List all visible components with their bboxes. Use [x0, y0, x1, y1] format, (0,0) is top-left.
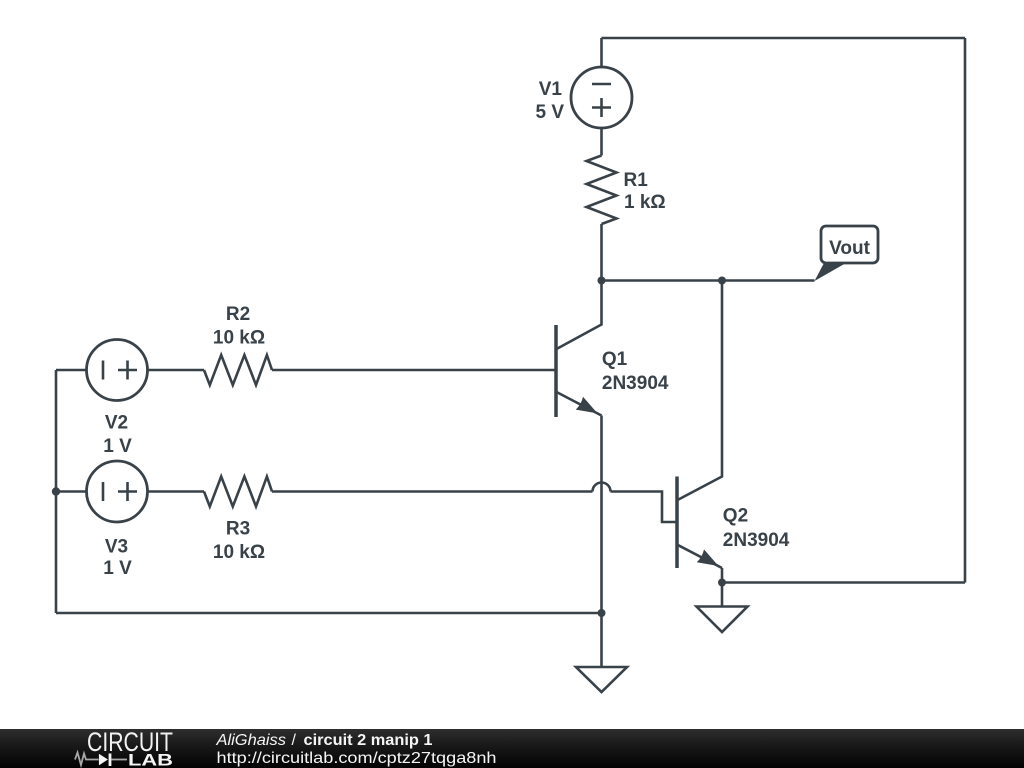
node junction dot bottom rail — [598, 609, 606, 617]
svg-text:/: / — [292, 732, 297, 749]
svg-text:2N3904: 2N3904 — [602, 373, 669, 394]
resistor R2 — [204, 355, 272, 385]
transistor Q1 — [556, 281, 602, 418]
wire Q2 emitter to ground — [721, 568, 724, 607]
wire R1 to node — [600, 224, 603, 281]
Q1 emitter arrow — [576, 397, 598, 414]
svg-text:5 V: 5 V — [535, 102, 564, 123]
voltage source V2 — [87, 340, 148, 401]
svg-text:Vout: Vout — [829, 238, 870, 259]
wire hop over Q1 emitter — [593, 483, 611, 492]
voltage source V1 — [571, 67, 632, 128]
wire output row — [602, 279, 815, 282]
wire top rail — [602, 37, 966, 40]
wire V1 bottom lead — [600, 128, 603, 156]
svg-text:1 V: 1 V — [103, 558, 132, 579]
svg-text:V1: V1 — [539, 79, 563, 100]
wire hop to Q2 base — [611, 492, 678, 523]
svg-text:1 V: 1 V — [103, 436, 132, 457]
footer logo resistor-diode symbol — [75, 753, 127, 766]
wire V1 top lead — [600, 38, 603, 67]
footer bar — [0, 729, 1024, 768]
node junction dot left rail V3 — [52, 487, 60, 495]
ground for bottom rail — [576, 613, 627, 692]
svg-text:AliGhaiss: AliGhaiss — [215, 732, 286, 749]
node junction dot Q2 emitter — [718, 579, 726, 587]
wire V2 right lead — [148, 369, 205, 372]
wire V2 left lead — [56, 369, 87, 372]
svg-text:10 kΩ: 10 kΩ — [213, 542, 265, 563]
svg-text:R3: R3 — [226, 519, 250, 540]
resistor R1 — [587, 156, 617, 225]
svg-text:Q1: Q1 — [602, 349, 628, 370]
wire Q1 base from R2 — [272, 369, 556, 372]
node junction dot R1 output — [598, 277, 606, 285]
svg-text:R1: R1 — [624, 170, 649, 191]
svg-text:circuit 2 manip 1: circuit 2 manip 1 — [304, 732, 433, 749]
svg-text:2N3904: 2N3904 — [723, 530, 790, 551]
ground for Q2 emitter — [697, 607, 748, 633]
wire Q1 emitter down to ground rail — [600, 416, 603, 614]
wire left rail — [55, 370, 58, 613]
wire bottom-right from Q2 emitter node to right rail — [722, 581, 965, 584]
svg-text:V3: V3 — [105, 537, 128, 558]
Q2 emitter arrow — [697, 549, 719, 566]
svg-text:http://circuitlab.com/cptz27tq: http://circuitlab.com/cptz27tqga8nh — [217, 750, 497, 767]
svg-text:10 kΩ: 10 kΩ — [213, 328, 265, 349]
svg-text:LAB: LAB — [128, 751, 173, 768]
wire R3 to hop — [272, 490, 593, 493]
svg-text:1 kΩ: 1 kΩ — [624, 192, 666, 213]
svg-text:Q2: Q2 — [723, 506, 748, 527]
transistor Q2 — [677, 281, 722, 569]
voltage source V3 — [87, 461, 148, 522]
node junction dot Q2 collector — [718, 277, 726, 285]
svg-text:V2: V2 — [105, 413, 128, 434]
wire V3 right lead — [148, 490, 205, 493]
wire right rail — [964, 38, 967, 583]
svg-text:R2: R2 — [226, 304, 250, 325]
resistor R3 — [204, 477, 272, 507]
wire V3 left lead — [56, 490, 87, 493]
node Vout flag — [815, 226, 879, 281]
wire bottom rail — [56, 612, 602, 615]
